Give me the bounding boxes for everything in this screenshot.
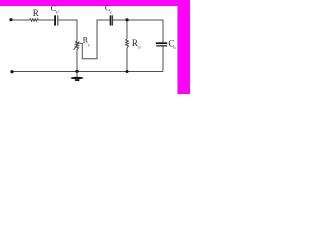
wire R1 to C1 — [39, 19, 55, 21]
wire C2 to output corner — [113, 20, 163, 42]
capacitor C2 right plate — [111, 15, 114, 25]
svg-text:gl: gl — [56, 10, 59, 14]
wire potentiometer bottom to ground node — [76, 49, 78, 71]
resistor R1 zigzag — [30, 19, 39, 22]
node junction dot R2 bottom — [126, 70, 129, 73]
wire R2 top — [126, 20, 128, 39]
capacitor C1 right plate — [56, 15, 59, 25]
svg-text:g: g — [110, 10, 112, 14]
svg-text:p: p — [88, 43, 90, 47]
background — [0, 0, 190, 94]
wire wiper to node B (U path up to second stage) — [79, 20, 110, 59]
magenta right bar — [177, 0, 190, 94]
potentiometer RP zigzag — [75, 41, 78, 49]
capacitor C1 left plate — [54, 15, 56, 25]
wire C1 to corner down to potentiometer top — [58, 20, 77, 41]
capacitor C3 bottom plate — [156, 45, 167, 46]
wire input top — [11, 19, 30, 21]
node dot input bottom — [10, 70, 13, 73]
wire C3 bottom to bottom rail — [162, 46, 164, 71]
wire R2 bottom — [126, 48, 128, 72]
capacitor C3 top plate — [156, 42, 167, 44]
node dot input top — [9, 18, 12, 21]
node junction dot B top — [125, 18, 128, 21]
resistor R2 zigzag — [126, 39, 129, 48]
potentiometer RP wiper arrow — [74, 41, 80, 50]
wire bottom rail — [12, 71, 163, 73]
svg-text:in: in — [173, 46, 176, 50]
svg-text:R: R — [33, 8, 39, 18]
ground — [71, 72, 84, 82]
capacitor C2 left plate — [110, 15, 112, 25]
node junction dot pot bottom — [75, 70, 78, 73]
magenta top bar — [0, 0, 190, 6]
